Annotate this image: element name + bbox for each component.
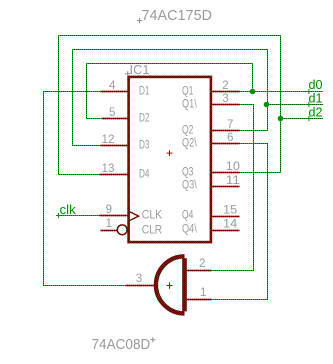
svg-text:Q4: Q4 — [182, 210, 194, 222]
svg-text:Q4\: Q4\ — [182, 224, 197, 236]
svg-text:74AC175D: 74AC175D — [142, 8, 213, 24]
origin cross of name text IC1 — [125, 71, 130, 76]
svg-text:6: 6 — [227, 132, 233, 144]
ic IC1 74AC175D box — [129, 77, 211, 242]
svg-text:11: 11 — [226, 175, 240, 187]
svg-text:2: 2 — [222, 80, 228, 92]
svg-text:2: 2 — [199, 258, 205, 270]
node d0 junction dot — [250, 89, 256, 95]
origin cross of value text 74AC175D — [137, 18, 142, 23]
svg-text:D1: D1 — [139, 86, 150, 98]
svg-text:4: 4 — [109, 80, 116, 92]
svg-text:13: 13 — [102, 163, 115, 175]
svg-text:Q1\: Q1\ — [182, 99, 197, 111]
svg-text:d2: d2 — [309, 106, 323, 120]
svg-text:D2: D2 — [139, 113, 150, 125]
svg-text:14: 14 — [223, 219, 238, 231]
origin cross of U2 gate — [167, 282, 173, 288]
origin cross of IC1 — [167, 150, 173, 156]
svg-text:clk: clk — [60, 203, 77, 217]
svg-text:1: 1 — [106, 218, 112, 230]
svg-text:12: 12 — [102, 134, 115, 146]
svg-text:IC1: IC1 — [130, 62, 150, 77]
node d1 junction dot — [264, 102, 270, 108]
wire: dark dash overlay to mimic dotted net rendering — [44, 36, 324, 300]
svg-text:3: 3 — [136, 273, 142, 285]
svg-text:9: 9 — [106, 204, 112, 216]
svg-text:Q2: Q2 — [182, 125, 193, 137]
svg-text:7: 7 — [227, 119, 233, 131]
svg-text:CLK: CLK — [142, 210, 163, 222]
svg-text:d0: d0 — [309, 78, 323, 92]
clock triangle on CLK pin — [130, 212, 139, 221]
svg-text:CLR: CLR — [142, 225, 162, 237]
svg-text:Q1: Q1 — [182, 86, 193, 98]
wire: all green net segments (bright layer) — [44, 36, 324, 300]
svg-text:74AC08D: 74AC08D — [92, 337, 151, 353]
origin cross of value text 74AC08D — [150, 337, 155, 342]
and-gate U2 74AC08D (mirrored, flat side right) — [182, 258, 187, 311]
svg-text:5: 5 — [109, 107, 115, 119]
svg-text:3: 3 — [222, 93, 228, 105]
svg-text:d1: d1 — [309, 92, 323, 106]
node d2 junction dot — [278, 116, 284, 122]
svg-text:Q3\: Q3\ — [182, 180, 197, 192]
svg-text:1: 1 — [200, 287, 206, 299]
origin cross of net label clk — [56, 213, 61, 218]
svg-text:Q2\: Q2\ — [182, 138, 197, 150]
origin cross of net label d1 — [306, 102, 311, 107]
origin cross of net label d0 — [306, 89, 311, 94]
svg-text:15: 15 — [223, 205, 237, 217]
svg-text:10: 10 — [226, 161, 240, 173]
inversion bubble on CLR pin 1 — [117, 225, 127, 235]
origin cross of net label d2 — [306, 116, 311, 121]
svg-text:Q3: Q3 — [182, 167, 193, 179]
pin stubs of IC1 and U2 (bright layer) — [100, 92, 240, 300]
svg-text:D4: D4 — [139, 169, 150, 181]
svg-text:D3: D3 — [139, 140, 150, 152]
